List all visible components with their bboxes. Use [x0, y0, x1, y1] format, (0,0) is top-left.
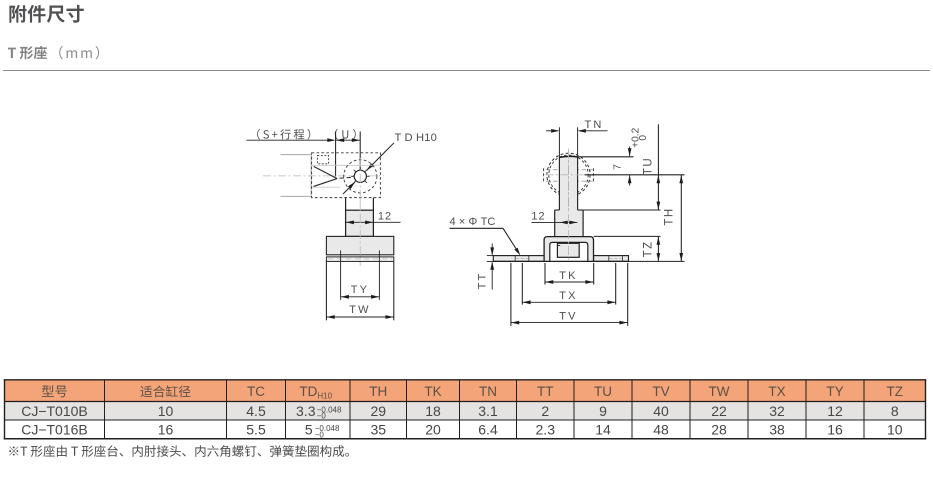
table: row1 background: [5, 402, 926, 421]
left view: TD leader line upper segment: [367, 143, 395, 171]
svg-text:18: 18: [425, 403, 441, 419]
svg-text:16: 16: [827, 421, 843, 437]
svg-text:TK: TK: [559, 270, 577, 282]
right view: TK extension lines: [544, 263, 546, 285]
right view: step extension line to TU: [583, 209, 660, 211]
right view: pin side object lines: [558, 157, 560, 210]
left view: (S+行程) dimension line: [247, 139, 335, 141]
right view: 4xPhiTC leader diagonal: [503, 228, 519, 252]
left view: phantom cylinder barrel: [281, 154, 312, 156]
svg-text:TV: TV: [652, 384, 669, 399]
svg-text:TN: TN: [479, 384, 497, 399]
table: header row background: [5, 381, 926, 402]
svg-text:CJ−T010B: CJ−T010B: [21, 403, 88, 419]
right view: TU dimension line: [657, 124, 659, 209]
svg-text:10: 10: [158, 403, 174, 419]
svg-text:35: 35: [370, 421, 386, 437]
right view: TV dimension: [511, 322, 628, 324]
left view: base plate strip: [326, 257, 393, 262]
right view: boss dashed circles: [547, 153, 590, 196]
right view: plate right wing: [594, 256, 629, 262]
left view: rod clevis V upper line: [314, 166, 338, 178]
left view: (U) text: [335, 129, 356, 140]
svg-text:TY: TY: [826, 384, 843, 399]
right view: centrelines: [568, 149, 570, 263]
svg-text:TX: TX: [559, 290, 577, 302]
svg-text:TW: TW: [709, 384, 730, 399]
svg-text:TN: TN: [584, 119, 603, 131]
left view: stem gray section: [346, 210, 374, 236]
right view: TN extension / pin side lines: [558, 127, 560, 157]
right view: 4xPhiTC leader underline: [450, 227, 504, 229]
svg-text:8: 8: [891, 403, 899, 419]
right view: plate left wing: [493, 256, 544, 262]
svg-text:22: 22: [711, 403, 727, 419]
svg-text:T D H10: T D H10: [395, 132, 438, 144]
svg-text:12: 12: [827, 403, 843, 419]
left view: body inner light line top: [312, 164, 380, 166]
left view: horizontal centreline: [263, 175, 384, 177]
left view: centreline overlay through stem and base: [359, 198, 361, 266]
svg-text:32: 32: [769, 403, 785, 419]
left view: TW extension lines: [325, 262, 327, 321]
svg-text:TT: TT: [537, 384, 554, 399]
right view: hat outer+inner (T-slot cap): [544, 237, 593, 262]
svg-text:10: 10: [887, 421, 903, 437]
right view: boss hidden hole lines: [546, 169, 593, 171]
left view: stem upper white section: [345, 198, 347, 211]
svg-text:38: 38: [769, 421, 785, 437]
left view: dash from V vertex to pin: [340, 177, 354, 178]
svg-text:7: 7: [612, 164, 624, 170]
svg-text:TW: TW: [349, 304, 371, 316]
left view: rod clevis V lower line: [314, 179, 338, 187]
svg-text:TZ: TZ: [887, 384, 904, 399]
svg-text:5: 5: [305, 421, 313, 437]
left view: extension line at clevis face: [335, 132, 337, 177]
left view: (U) dimension line: [336, 139, 360, 141]
right view: hat top extension line to TZ: [594, 235, 661, 237]
right view: plate hole hidden edges right: [608, 256, 610, 262]
svg-text:20: 20: [425, 421, 441, 437]
left view: base block: [326, 236, 393, 254]
subtitle T形座(mm): [8, 46, 47, 59]
svg-text:4 × Φ TC: 4 × Φ TC: [450, 216, 496, 228]
svg-text:TZ: TZ: [643, 240, 655, 257]
svg-text:12: 12: [378, 210, 392, 222]
left view: body inner light line bottom: [312, 186, 340, 188]
left view: dimension (S+行程) text: [257, 129, 310, 140]
svg-text:TU: TU: [594, 384, 612, 399]
right view: TN dimension: [546, 130, 558, 132]
svg-text:−0: −0: [317, 412, 327, 421]
svg-text:TC: TC: [247, 384, 265, 399]
header rule: [3, 70, 930, 72]
left view: extension line at pin centre: [359, 132, 361, 171]
svg-text:28: 28: [711, 421, 727, 437]
page title 附件尺寸: [9, 5, 83, 23]
right view: TT extension ticks: [487, 255, 494, 257]
right view: TK dimension: [545, 281, 594, 283]
svg-text:6.4: 6.4: [478, 421, 498, 437]
svg-text:TX: TX: [768, 384, 785, 399]
right view: TX dimension: [522, 301, 615, 303]
svg-text:9: 9: [599, 403, 607, 419]
svg-text:12: 12: [531, 210, 545, 222]
right view: boss side edge dashes: [543, 168, 545, 182]
table header: 型号: [42, 385, 67, 397]
left view: TW dimension: [326, 316, 393, 318]
right view: plate bottom extension to TH: [629, 260, 685, 262]
svg-text:TH: TH: [663, 207, 675, 225]
svg-text:TH: TH: [369, 384, 387, 399]
svg-text:2.3: 2.3: [536, 421, 556, 437]
svg-text:16: 16: [158, 421, 174, 437]
right view: T-nut block inside hat: [557, 243, 579, 257]
left view: pin hole circle with knurl ticks: [354, 170, 366, 182]
left view: hidden screw / TY extension line right: [378, 250, 380, 299]
right view: 12 dimension: [532, 221, 578, 223]
right view: plate hole hidden edges left: [514, 256, 516, 262]
right view: TZ dimension: [657, 237, 659, 262]
left view: port hidden square: [317, 155, 328, 163]
left view: 12 dimension arrows: [346, 221, 374, 223]
right view: pin top edge: [559, 156, 577, 157]
table: grid lines: [4, 379, 926, 381]
svg-text:TT: TT: [476, 272, 488, 290]
right view: TV extension lines: [510, 263, 512, 326]
svg-text:TY: TY: [351, 284, 369, 296]
svg-text:0: 0: [638, 135, 649, 141]
right view: plate bottom line continuous: [493, 260, 628, 262]
svg-text:3.3: 3.3: [296, 403, 316, 419]
svg-text:TV: TV: [559, 310, 577, 322]
svg-text:3.1: 3.1: [478, 403, 498, 419]
left view: TD leader line lower segment: [343, 182, 355, 194]
svg-text:CJ−T016B: CJ−T016B: [21, 421, 88, 437]
left view: clevis body hidden outline: [312, 153, 381, 198]
right view: TT dimension arrows: [491, 244, 493, 255]
right view: pin gray fill: [560, 157, 577, 210]
left view: boss hidden circle: [344, 160, 377, 193]
svg-text:2: 2: [541, 403, 549, 419]
svg-text:14: 14: [595, 421, 611, 437]
left view: vertical centreline through pin/stem: [359, 158, 361, 266]
right view: 7 dimension arrows: [629, 147, 631, 157]
svg-text:−0: −0: [315, 430, 325, 439]
svg-text:5.5: 5.5: [246, 421, 266, 437]
right view: pin top extension line to 7-dim: [578, 156, 634, 158]
right view: centreline overlay: [568, 150, 570, 261]
right view: TX extension lines: [521, 263, 523, 305]
footnote: [9, 445, 349, 457]
left view: TY dimension: [341, 296, 380, 298]
svg-text:48: 48: [653, 421, 669, 437]
svg-text:29: 29: [370, 403, 386, 419]
right view: centre horizontal extension line: [585, 174, 685, 176]
left view: plate strip hatch dashes: [328, 258, 392, 260]
right view: wider stem below step: [555, 210, 583, 237]
right view: TH dimension: [680, 175, 682, 261]
left view: hidden screw / TY extension line left: [340, 250, 342, 299]
svg-text:TU: TU: [643, 157, 655, 175]
table header: 适合缸径: [140, 385, 190, 397]
svg-text:40: 40: [653, 403, 669, 419]
svg-text:4.5: 4.5: [246, 403, 266, 419]
svg-text:TK: TK: [424, 384, 441, 399]
